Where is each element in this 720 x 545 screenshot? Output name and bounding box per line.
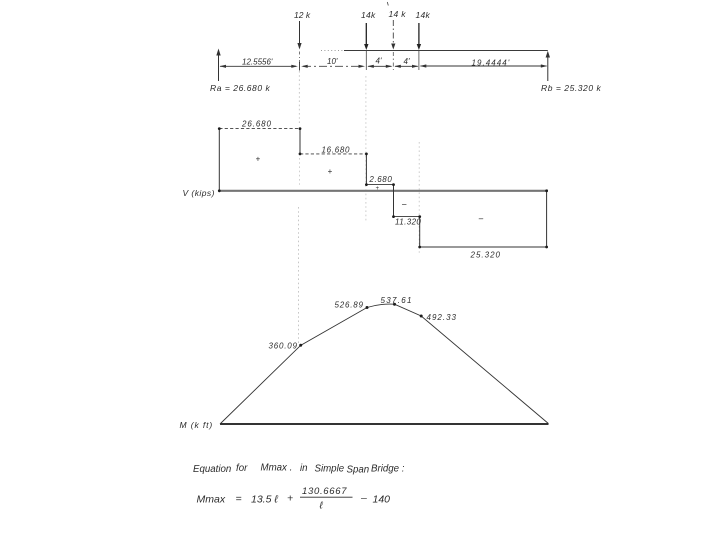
load 14k #1 arrow (365, 23, 367, 45)
svg-text:Ra = 26.680 k: Ra = 26.680 k (210, 83, 271, 93)
svg-text:V (kips): V (kips) (183, 188, 215, 198)
svg-text:26.680: 26.680 (241, 120, 272, 129)
svg-text:in: in (300, 463, 308, 474)
svg-text:+: + (256, 155, 261, 164)
beam line (solid) (344, 50, 548, 52)
tiny tick above middle 14k label (387, 2, 388, 6)
moment vertex dots (299, 303, 423, 347)
shear left vertical (jump to +26.680) (218, 129, 220, 191)
load 14k #3 arrow (418, 23, 420, 45)
load 12k arrow (down) (299, 21, 301, 44)
svg-text:–: – (360, 492, 367, 504)
dimension 12.5556' arrowheads (220, 65, 227, 68)
svg-text:Span: Span (347, 465, 370, 476)
shear -11.320 level (394, 216, 420, 218)
dimension 4' #2 arrowheads (394, 65, 401, 68)
12k leader dash-dot below arrow (299, 52, 301, 64)
moment baseline (220, 423, 549, 425)
svg-text:=: = (236, 493, 242, 505)
svg-text:14k: 14k (361, 10, 376, 20)
moment curve (220, 304, 549, 424)
svg-text:16.680: 16.680 (322, 146, 351, 155)
svg-text:19.4444': 19.4444' (472, 58, 511, 67)
dimension 4' #1 line (368, 65, 392, 67)
svg-text:140: 140 (373, 494, 391, 506)
beam line (dotted lead-in) (321, 50, 344, 52)
construction line at third 14k load (x=419) (418, 142, 420, 253)
svg-text:Rb = 25.320 k: Rb = 25.320 k (541, 83, 602, 93)
svg-text:4': 4' (404, 57, 410, 66)
svg-text:11.320: 11.320 (395, 218, 421, 227)
load 14k #2 arrow (dash-dot shaft) (392, 20, 394, 46)
shear zero axis (219, 190, 548, 192)
dimension 19.4444' arrowheads (420, 64, 427, 67)
svg-text:+: + (287, 493, 293, 505)
shear drop at 12k (299, 129, 301, 154)
14k #2 extension below beam (dash-dot) (392, 52, 394, 70)
svg-text:10': 10' (327, 57, 338, 66)
dimension 10' line (dash-dot) (303, 65, 361, 67)
svg-text:M (k ft): M (k ft) (180, 420, 214, 430)
svg-text:130.6667: 130.6667 (302, 486, 347, 497)
shear drop at 14k #1 (365, 154, 367, 185)
construction line at 12k load (x=299) upper part (298, 71, 300, 123)
dimension 4' #2 line (395, 65, 418, 67)
reaction RB arrow (upward, below right beam end) (547, 56, 549, 81)
dimension 19.4444' line (421, 65, 547, 67)
shear drop at 14k #3 (419, 217, 421, 247)
svg-text:492.33: 492.33 (427, 313, 457, 322)
svg-text:14 k: 14 k (389, 9, 407, 19)
construction line at first 14k load (x=366) (365, 76, 367, 223)
svg-text:14k: 14k (416, 10, 431, 20)
shear drop at 14k #2 (crosses axis) (393, 185, 395, 217)
svg-text:Bridge :: Bridge : (371, 464, 405, 475)
dimension 10' arrowheads (301, 65, 308, 68)
svg-text:537.61: 537.61 (381, 296, 413, 305)
svg-text:526.89: 526.89 (335, 301, 364, 310)
shear -25.320 level (420, 246, 547, 248)
svg-text:12 k: 12 k (294, 10, 311, 20)
shear right vertical (jump back to zero at RB) (546, 191, 548, 247)
svg-text:360.09: 360.09 (269, 342, 298, 351)
14k #1 extension below beam (365, 51, 367, 71)
svg-text:Mmax .: Mmax . (261, 463, 293, 474)
construction line at 12k load (x=299) short segment below 16.680 step (299, 158, 301, 186)
construction line at 12k load (x=299) lower part to moment point (298, 207, 300, 344)
svg-text:for: for (236, 463, 248, 474)
reaction RA arrow (upward) (218, 54, 220, 81)
svg-text:+: + (376, 186, 380, 192)
svg-text:Mmax: Mmax (197, 494, 226, 506)
svg-text:Equation: Equation (193, 464, 231, 475)
shear +2.680 level (366, 184, 393, 186)
equation title line (193, 463, 405, 476)
svg-text:–: – (478, 214, 484, 223)
svg-text:2.680: 2.680 (368, 175, 392, 184)
shear +16.680 level (300, 153, 366, 155)
svg-text:Simple: Simple (315, 464, 345, 475)
svg-text:4': 4' (376, 56, 382, 65)
14k #3 extension below beam (418, 51, 420, 71)
fraction bar (300, 496, 353, 498)
svg-text:–: – (401, 200, 407, 209)
svg-text:12.5556': 12.5556' (242, 58, 273, 67)
svg-text:+: + (328, 167, 333, 176)
dimension 12.5556' line (220, 65, 296, 67)
dimension 4' #1 arrowheads (367, 65, 374, 68)
svg-text:25.320: 25.320 (470, 250, 501, 259)
corner dots on shear diagram (218, 127, 548, 248)
extension tick at 12k on dimension line (299, 62, 301, 71)
shear +26.680 level (219, 128, 300, 130)
svg-text:13.5 ℓ: 13.5 ℓ (251, 494, 278, 506)
